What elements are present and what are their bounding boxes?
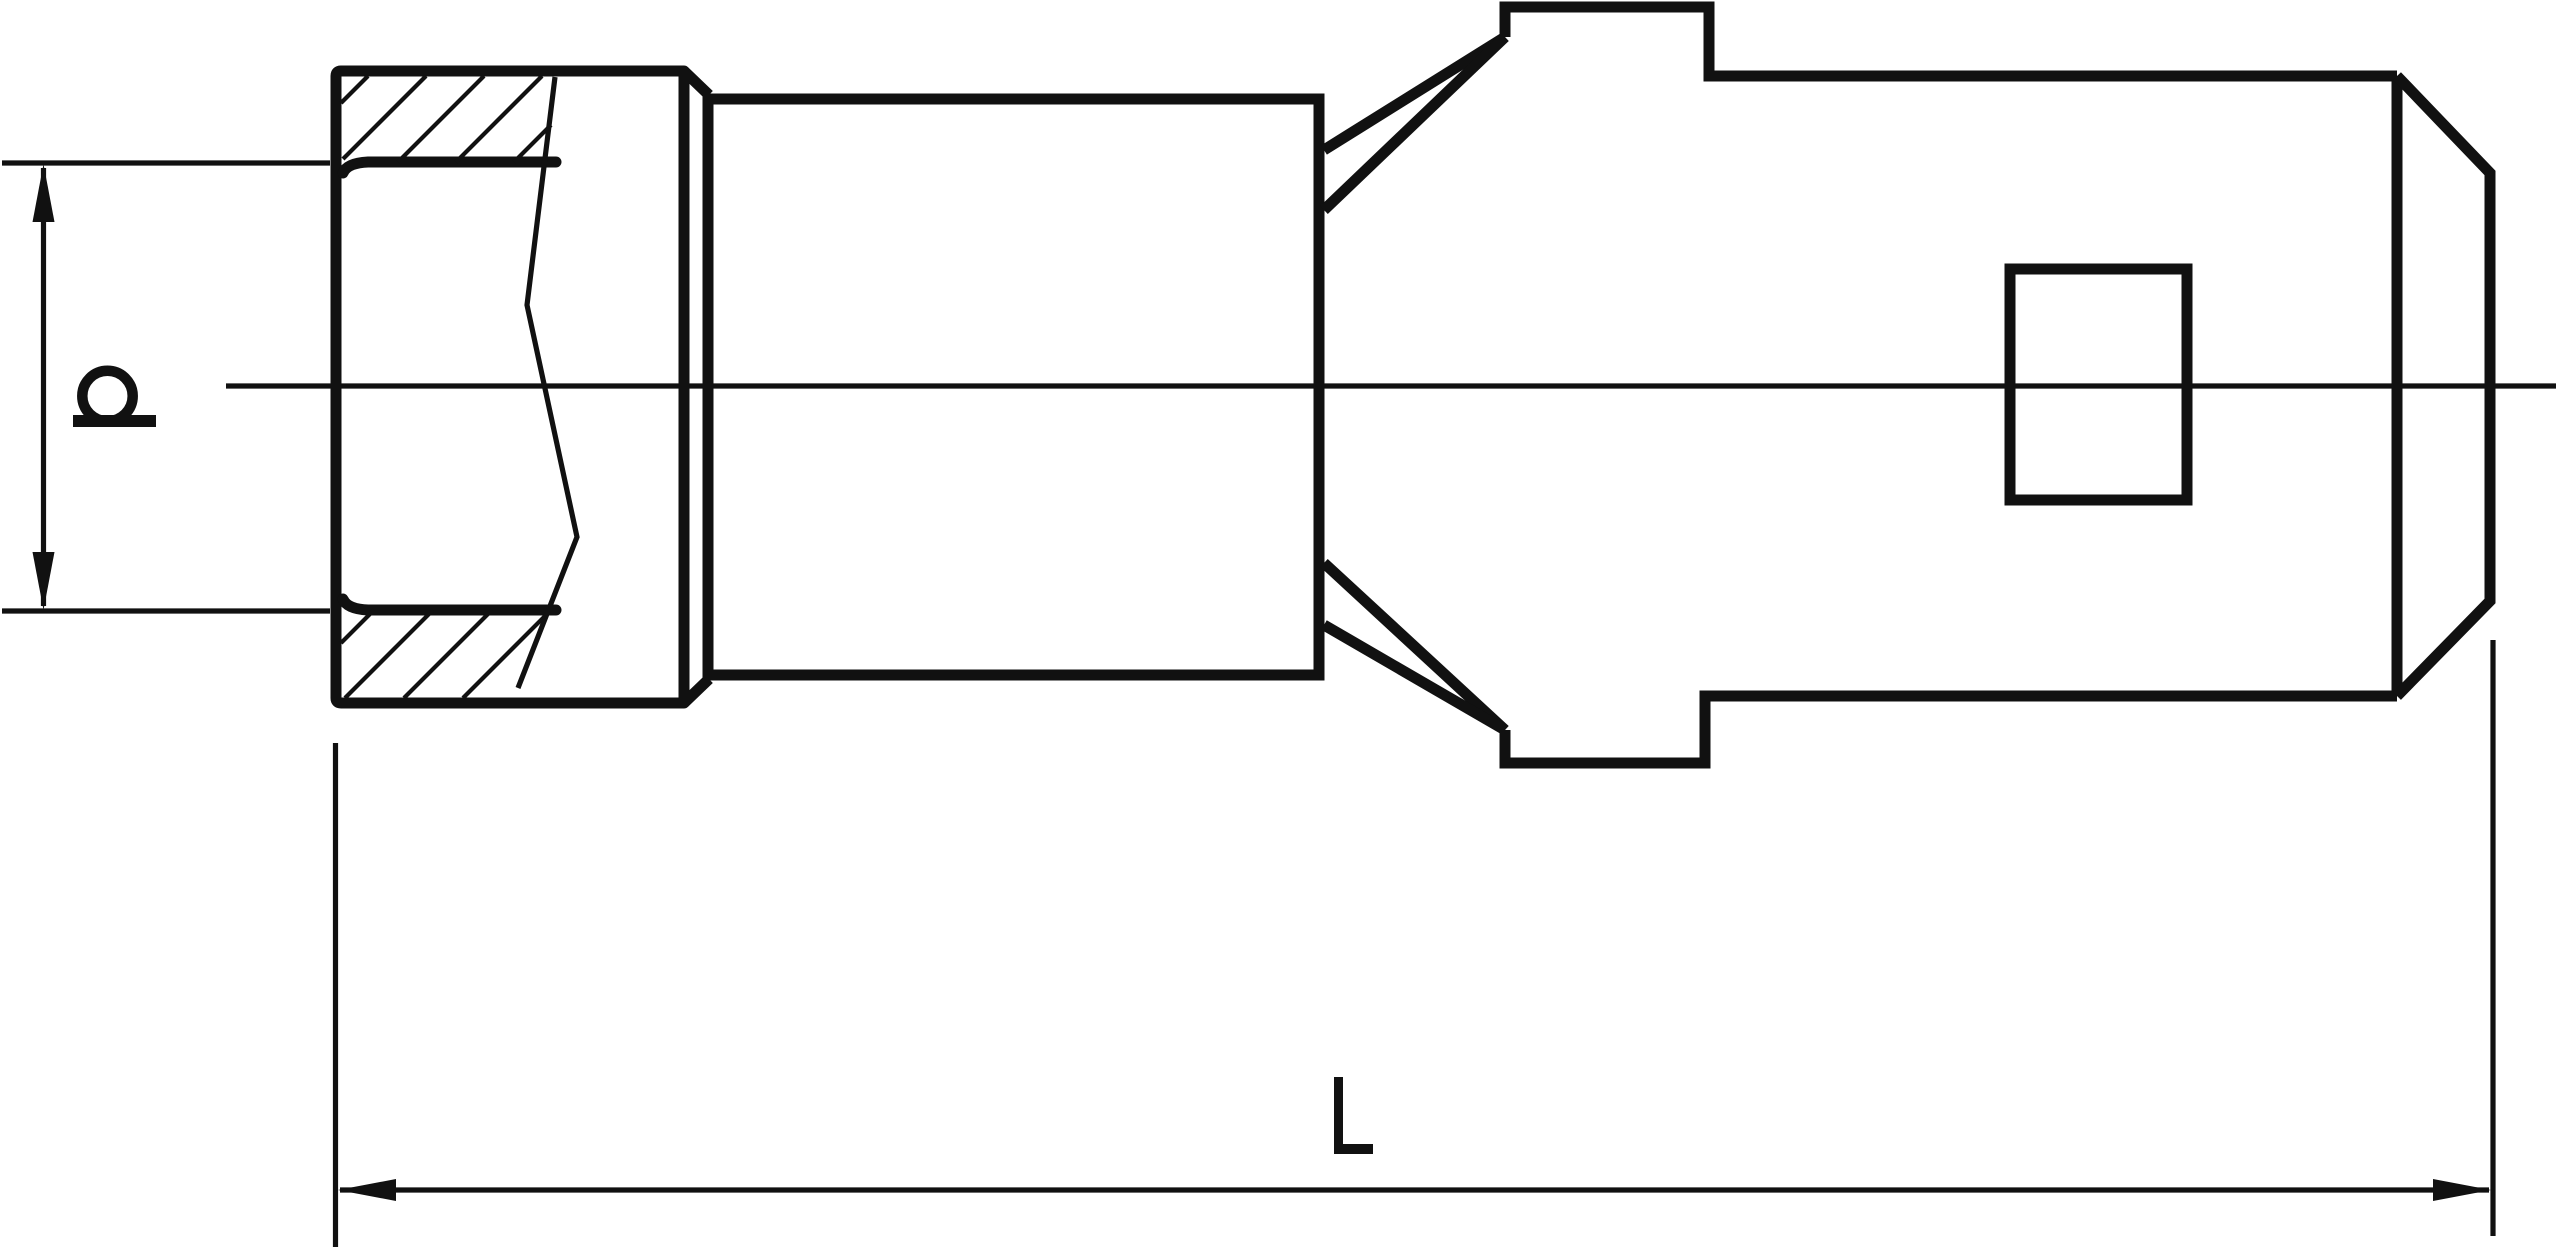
wing seam bottom inner bbox=[1324, 625, 1505, 730]
bore hatch bottom bbox=[341, 610, 547, 698]
sleeve chamfer top bbox=[684, 71, 709, 95]
sleeve chamfer bottom bbox=[684, 679, 709, 703]
wing seam bottom outer bbox=[1324, 563, 1505, 730]
centerline bbox=[226, 383, 2556, 388]
tab bottom profile with stop step bbox=[1505, 696, 2397, 763]
wing seam top outer bbox=[1324, 37, 1505, 150]
bore hatch top bbox=[341, 76, 551, 162]
label d (rotated) bbox=[73, 371, 156, 421]
sleeve bore bottom edge bbox=[343, 599, 556, 610]
tab tip end face bbox=[2392, 76, 2403, 696]
wire barrel bbox=[708, 99, 1319, 675]
insulation sleeve outline bbox=[336, 71, 684, 703]
tab top profile with stop step bbox=[1505, 7, 2397, 76]
dimension d arrow down bbox=[33, 552, 55, 610]
dimension L arrow left bbox=[338, 1179, 396, 1201]
dimension d extension line top bbox=[2, 160, 330, 165]
detent hole bbox=[2010, 269, 2187, 500]
tab tip chamfer outline bbox=[2397, 76, 2490, 696]
label L bbox=[1334, 1077, 1373, 1154]
crimp seam line bbox=[518, 77, 577, 688]
dimension L arrow right bbox=[2433, 1179, 2491, 1201]
dimension L extension line right bbox=[2490, 640, 2495, 1236]
dimension L extension line left bbox=[333, 743, 338, 1247]
dimension L line bbox=[340, 1187, 2489, 1192]
dimension d extension line bottom bbox=[2, 608, 330, 613]
wing seam top inner bbox=[1324, 37, 1505, 210]
dimension d arrow up bbox=[33, 164, 55, 222]
dimension d line bbox=[41, 168, 46, 606]
sleeve bore top edge bbox=[343, 162, 556, 173]
